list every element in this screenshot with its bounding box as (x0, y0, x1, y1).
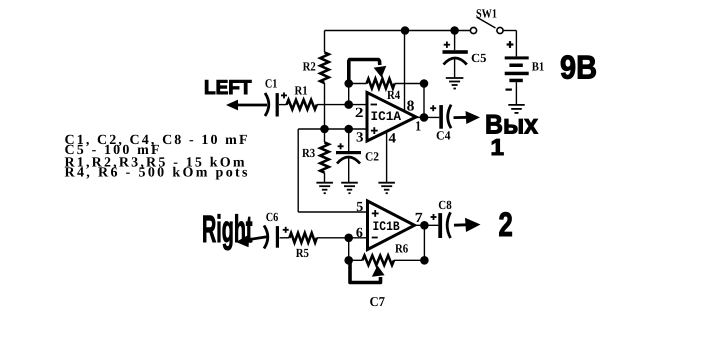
svg-text:C2: C2 (365, 150, 379, 164)
svg-text:IC1A: IC1A (371, 109, 402, 124)
svg-text:7: 7 (415, 211, 423, 226)
svg-text:R6: R6 (395, 242, 408, 256)
svg-text:R2: R2 (303, 60, 316, 74)
svg-text:1: 1 (491, 134, 505, 160)
svg-text:C6: C6 (266, 210, 279, 224)
svg-text:9В: 9В (560, 49, 597, 86)
svg-text:B1: B1 (532, 60, 545, 74)
svg-text:SW1: SW1 (476, 7, 497, 21)
svg-text:R1: R1 (295, 83, 308, 97)
svg-text:R5: R5 (296, 246, 309, 260)
svg-text:C4: C4 (436, 129, 451, 143)
svg-text:5: 5 (356, 200, 363, 215)
svg-text:Right: Right (202, 209, 253, 251)
svg-text:4: 4 (389, 132, 397, 147)
svg-text:IC1B: IC1B (373, 219, 400, 234)
svg-text:3: 3 (356, 131, 364, 146)
svg-text:6: 6 (356, 226, 363, 241)
svg-text:C5: C5 (471, 51, 487, 65)
svg-text:2: 2 (355, 106, 364, 121)
svg-text:C7: C7 (370, 294, 386, 309)
svg-text:1: 1 (415, 120, 421, 135)
svg-text:2: 2 (499, 206, 513, 244)
svg-text:R3: R3 (302, 146, 315, 160)
svg-text:R4: R4 (387, 88, 401, 102)
svg-text:C8: C8 (438, 198, 451, 212)
svg-text:R4, R6 - 500 kOm pots: R4, R6 - 500 kOm pots (65, 166, 249, 181)
svg-text:C1: C1 (265, 76, 278, 90)
svg-text:8: 8 (407, 99, 415, 115)
svg-text:LEFT: LEFT (204, 77, 252, 99)
